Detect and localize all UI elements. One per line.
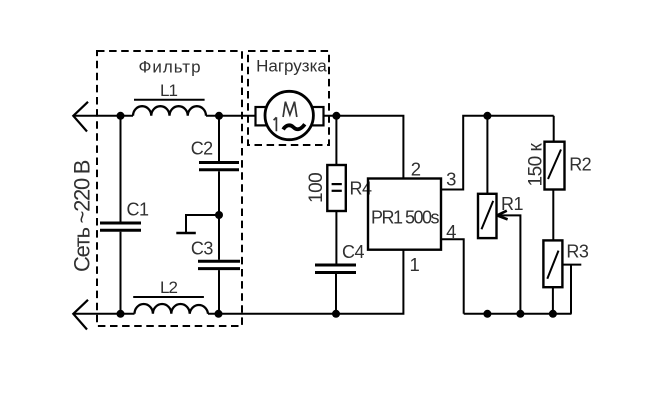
svg-text:Фильтр: Фильтр — [138, 58, 201, 77]
node junction R1 bottom — [483, 310, 491, 318]
svg-text:R2: R2 — [569, 155, 591, 175]
node junction C2 top — [215, 112, 223, 120]
node junction C1 top — [117, 112, 125, 120]
wire pin 4 to bottom rail right — [440, 239, 463, 313]
ground stub — [176, 215, 219, 233]
svg-text:L1: L1 — [160, 81, 177, 100]
arrow mains lower lead — [73, 300, 88, 330]
node junction R1 top — [483, 112, 491, 120]
wire R3 tap — [562, 265, 581, 314]
arrow mains upper lead — [73, 102, 88, 132]
capacitor C1 — [100, 116, 149, 314]
svg-text:100: 100 — [306, 173, 327, 203]
wire top rail left — [73, 115, 133, 117]
wire pin 3 to top rail right — [441, 116, 554, 190]
svg-text:C1: C1 — [127, 200, 149, 220]
wire top rail motor to pin 2 of U1 — [324, 116, 404, 179]
resistor R3 — [543, 240, 588, 287]
node junction R3 bottom — [549, 310, 557, 318]
wire bottom rail L2 to pin 1 of U1 — [208, 250, 403, 314]
svg-text:C4: C4 — [342, 242, 364, 262]
svg-text:Нагрузка: Нагрузка — [256, 57, 327, 76]
node junction R1 wiper bottom — [516, 310, 524, 318]
svg-text:L2: L2 — [160, 278, 177, 297]
IC U1 PR1500s — [368, 179, 441, 250]
wire top rail L1 to motor — [206, 115, 256, 117]
svg-text:150 к: 150 к — [525, 143, 546, 187]
svg-text:R3: R3 — [566, 242, 588, 262]
svg-text:2: 2 — [411, 159, 421, 180]
resistor R1 (potentiometer) — [478, 194, 523, 238]
resistor R4 — [327, 116, 372, 264]
node junction C3 bottom — [215, 310, 223, 318]
wire bottom rail right — [464, 313, 572, 315]
svg-text:C2: C2 — [191, 138, 213, 158]
capacitor C4 — [315, 242, 364, 314]
wire R3 bottom lead — [552, 287, 554, 314]
wire bottom rail left — [73, 313, 134, 315]
svg-text:1: 1 — [410, 254, 420, 275]
wire R2 top lead — [553, 116, 555, 142]
svg-text:3: 3 — [446, 168, 456, 189]
capacitor C2 — [191, 116, 239, 215]
svg-text:Сеть ~220 В: Сеть ~220 В — [70, 160, 95, 272]
node junction R4 top — [332, 112, 340, 120]
filter dashed box Фильтр — [97, 51, 242, 326]
svg-text:PR1 500s: PR1 500s — [371, 208, 440, 228]
inductor L1 — [133, 81, 206, 116]
inductor L2 — [133, 278, 208, 314]
load dashed box Нагрузка — [248, 51, 329, 145]
wire R2 to R3 — [552, 190, 554, 241]
wire R1 top branch — [486, 116, 488, 194]
svg-text:C3: C3 — [191, 238, 213, 258]
motor M1 — [256, 91, 324, 139]
R1 wiper arrow — [497, 211, 520, 314]
node junction C4 bottom — [332, 310, 340, 318]
node junction C1 bottom — [117, 310, 125, 318]
capacitor C3 — [191, 215, 240, 314]
resistor R2 — [545, 142, 592, 190]
node junction C2/C3/ground stub — [215, 211, 223, 219]
